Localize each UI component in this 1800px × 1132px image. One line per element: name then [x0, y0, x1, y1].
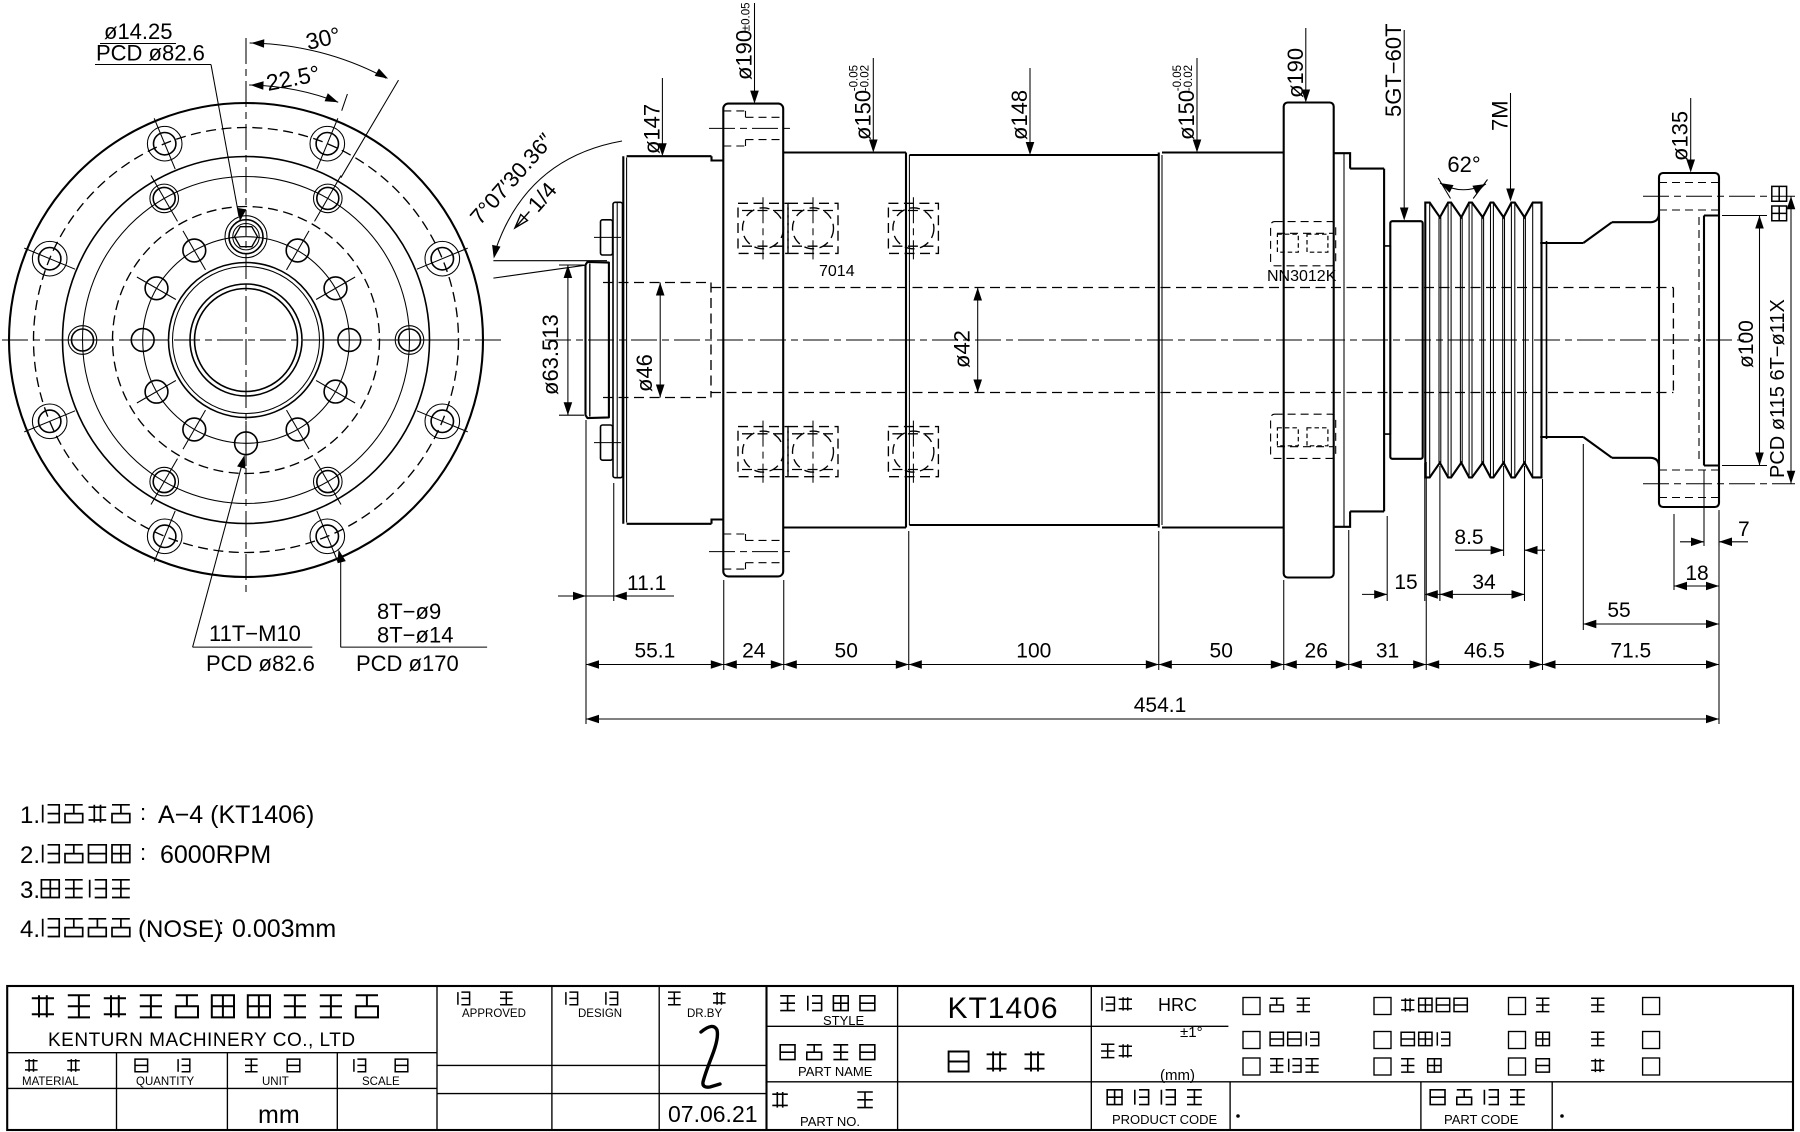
step face ø148/ø150: [1158, 153, 1160, 528]
svg-text:15: 15: [1394, 571, 1417, 594]
svg-text:50: 50: [1210, 640, 1233, 663]
left view: mid hole at 270.0 deg: [56, 326, 109, 355]
front bearing 7014 #2 top: [788, 203, 838, 253]
angular dimension 22.5 deg: [249, 60, 347, 111]
rear flange disc ø190: [1284, 103, 1334, 578]
nose cone internal face line: [589, 264, 591, 417]
dimension 7: [1680, 470, 1750, 546]
overall dimension 454.1: [586, 694, 1719, 723]
step chamfer line second: [1161, 155, 1163, 525]
dimension 55: [1583, 444, 1719, 630]
housing ø150 first section top edge: [783, 151, 906, 153]
bore ø46 hidden lines: [603, 283, 711, 398]
left view: outer hole ø14 counterbore at 112.5 deg: [417, 404, 468, 439]
svg-text:2.: 2.: [20, 842, 40, 869]
dimension label ø190 +-0.05: [732, 2, 759, 103]
rear cap ring D right face: [1383, 169, 1385, 512]
svg-text:62°: 62°: [1447, 152, 1480, 177]
dimension chain 55.1/24/50/100/50/26/31/46.5/71.5: [586, 640, 1719, 669]
header part name: [780, 1045, 875, 1060]
signature scribble: [701, 1026, 720, 1087]
shaft collar thin ring: [1384, 246, 1390, 434]
dimension 62 degrees pulley groove angle: [1438, 152, 1487, 199]
left view: tapped hole M10 at 270 deg: [120, 329, 165, 352]
svg-text:5GT−60T: 5GT−60T: [1381, 23, 1406, 117]
header quantity: [135, 1059, 190, 1072]
svg-text:-0.02: -0.02: [1183, 65, 1195, 91]
svg-text:ø135: ø135: [1668, 111, 1693, 161]
svg-text:DR.BY: DR.BY: [687, 1008, 722, 1020]
svg-text:SCALE: SCALE: [362, 1076, 400, 1088]
header part no: [772, 1092, 788, 1108]
rear cap ring D top edge: [1350, 168, 1384, 170]
left view: special hole ø14.25 hex socket screw at top: [225, 216, 267, 258]
svg-text:7014: 7014: [819, 263, 855, 280]
svg-text:(NOSE): (NOSE): [138, 916, 222, 943]
svg-text:A−4 (KT1406): A−4 (KT1406): [158, 801, 314, 829]
pulley crest edge vertical lines: [1424, 203, 1426, 478]
dimension ø63.513 nose: [538, 265, 584, 415]
flange hidden bolt hole bottom centerline: [709, 551, 795, 553]
svg-text:0.003mm: 0.003mm: [232, 915, 336, 943]
left view: inner hole centers circle PCD ø82.6: [143, 237, 350, 444]
left view: tapped hole M10 at 120 deg: [316, 380, 355, 403]
svg-text:STYLE: STYLE: [823, 1013, 865, 1028]
svg-text:-0.02: -0.02: [859, 65, 871, 91]
svg-text:PCD ø82.6: PCD ø82.6: [206, 651, 315, 676]
housing ø148 top edge: [909, 154, 1158, 156]
relief step before flange bottom: [712, 520, 724, 524]
left view: outer hole ø14 counterbore at 337.5 deg: [147, 118, 182, 169]
left view: outer hole ø14 counterbore at 67.5 deg: [417, 241, 468, 276]
shoulder top edge: [1612, 213, 1659, 222]
svg-text::: :: [140, 840, 146, 865]
svg-text:ø46: ø46: [632, 354, 657, 392]
title block main divider: [765, 986, 767, 1130]
part name value appearance drawing: [949, 1052, 1045, 1072]
shaft cone top: [1583, 222, 1612, 243]
svg-text:26: 26: [1305, 640, 1328, 663]
svg-text:ø150: ø150: [850, 90, 875, 140]
note line 1: spindle spec A-4 (KT1406): [0, 0, 314, 829]
front cap ring: [613, 202, 623, 477]
svg-text:07.06.21: 07.06.21: [668, 1101, 758, 1127]
dimension ø42 bore: [950, 288, 983, 393]
svg-text:50: 50: [835, 640, 858, 663]
right label column rows: [767, 1026, 1794, 1130]
extension lines for dimension chain: [586, 420, 1719, 724]
left view: outer hole ø14 counterbore at 157.5 deg: [310, 511, 345, 562]
rear bearing NN3012K bottom: [1271, 414, 1336, 458]
company box rows: [7, 1053, 437, 1130]
svg-text:PCD ø82.6: PCD ø82.6: [96, 41, 205, 66]
left view: flange centerline horizontal: [2, 339, 506, 341]
left view: tapped hole M10 at 330 deg: [183, 231, 206, 270]
dimension 34: [1440, 466, 1525, 601]
angular dimension 30 deg: [250, 22, 399, 178]
dimension ø100 boss: [1722, 216, 1767, 466]
front cap bolt top centerline: [594, 236, 621, 238]
svg-text:7: 7: [1738, 518, 1750, 541]
housing ø148 bottom edge: [909, 524, 1158, 526]
note line 3: grease lubrication: [20, 877, 130, 904]
svg-text:24: 24: [742, 640, 766, 663]
body ø147 top edge: [627, 155, 712, 157]
left view: outer hole ø14 counterbore at 202.5 deg: [147, 511, 182, 562]
label 8T-ø9 / 8T-ø14 / PCD ø170 with leader to outer hole: [338, 550, 488, 677]
nose taper cone ø63.513: [586, 262, 609, 418]
flange hidden bolt hole bottom: counterbore profile: [723, 534, 783, 569]
output shaft bottom edge: [1540, 436, 1583, 438]
header style: [780, 996, 875, 1011]
svg-text:±0.05: ±0.05: [741, 2, 753, 31]
svg-text:PART NO.: PART NO.: [800, 1114, 860, 1129]
left view: outer hole ø14 counterbore at 247.5 deg: [24, 404, 75, 439]
dimension label ø150 -0.02/-0.05 first: [848, 58, 877, 153]
dimension label ø190 rear: [1283, 28, 1310, 103]
svg-text:ø42: ø42: [950, 330, 975, 368]
front bearing 7014 #2 bottom: [788, 427, 838, 477]
end flange boss hidden line: [1698, 217, 1700, 464]
svg-text:DESIGN: DESIGN: [578, 1008, 622, 1020]
header hardness HRC: [1102, 997, 1132, 1010]
end flange ø135: [1659, 173, 1719, 507]
middle section rows: [437, 1065, 767, 1093]
pulley clamp hub: [1390, 221, 1422, 459]
dimension label 7M: [1488, 93, 1515, 202]
end flange hidden bolt holes top: [1659, 183, 1719, 211]
label 11T-M10 / PCD ø82.6 with leader to bottom hole: [193, 455, 315, 676]
belt pulley 5GT-60T / 7M grooved profile: [1425, 203, 1541, 478]
left view: tapped hole M10 at 150 deg: [286, 410, 309, 449]
svg-text:ø148: ø148: [1007, 90, 1032, 140]
left view: tapped hole M10 at 60 deg: [316, 277, 355, 300]
svg-text:18: 18: [1685, 562, 1708, 585]
left view: tapped hole M10 at 30 deg: [286, 231, 309, 270]
svg-text:8.5: 8.5: [1454, 526, 1483, 549]
left view: bore inner circle: [195, 289, 298, 392]
svg-text:11.1: 11.1: [627, 572, 666, 595]
svg-text:QUANTITY: QUANTITY: [136, 1076, 194, 1088]
housing ø150 second section bottom edge: [1162, 526, 1284, 528]
flange hidden bolt hole top: counterbore profile: [723, 111, 783, 146]
left view: mid hole at 90.0 deg: [383, 326, 436, 355]
taper angle reference line horizontal: [493, 260, 607, 262]
end flange bolt centerline bottom: [1643, 483, 1795, 485]
front bearing 7014 #1 bottom: [738, 427, 788, 477]
dimension 18: [1674, 514, 1719, 590]
svg-text:HRC: HRC: [1158, 995, 1197, 1015]
pulley groove root vertical line pairs: [1438, 217, 1440, 462]
svg-text:1.: 1.: [20, 802, 40, 829]
flange hidden bolt hole top centerline: [709, 127, 795, 129]
dimension label ø147: [639, 78, 666, 156]
body ø147 bottom edge: [627, 523, 712, 525]
front cap bolt bottom: [601, 425, 613, 460]
note line 2: spindle speed 6000RPM: [20, 840, 271, 869]
svg-text:ø63.513: ø63.513: [538, 314, 563, 395]
label ø14.25 / PCD ø82.6 with leader to special hole: [95, 19, 246, 222]
svg-text:71.5: 71.5: [1610, 640, 1651, 663]
svg-text:3.: 3.: [20, 877, 40, 904]
side view: main centerline: [545, 339, 1745, 341]
rear cap ring C inner line: [1343, 153, 1345, 527]
shaft washer face: [1546, 241, 1548, 439]
front cap bolt top: [601, 220, 613, 255]
svg-text:-0.05: -0.05: [1172, 65, 1184, 91]
left view: tapped hole M10 at 210 deg: [183, 410, 206, 449]
left view: nose chamfer circle: [173, 267, 320, 414]
svg-text:100: 100: [1016, 640, 1051, 663]
output shaft top edge: [1540, 242, 1583, 244]
header drawn by: [668, 992, 681, 1005]
part code dot: [1560, 1114, 1564, 1118]
note line 4: runout (NOSE) 0.003mm: [20, 914, 336, 943]
front bearing 7014 #3 bottom: [888, 427, 938, 477]
left view: flange centerline vertical: [245, 38, 247, 592]
taper angle slanted line 7deg: [493, 265, 585, 278]
spindle body left face: [622, 156, 624, 524]
bore ø42 hidden lines: [711, 288, 1673, 393]
rear cap ring C bottom: [1334, 511, 1350, 526]
svg-text:11T−M10: 11T−M10: [209, 621, 301, 646]
svg-text:ø150: ø150: [1174, 90, 1199, 140]
end flange hidden bolt holes bottom: [1659, 470, 1719, 498]
svg-text:KENTURN MACHINERY CO., LTD: KENTURN MACHINERY CO., LTD: [48, 1030, 356, 1051]
step chamfer line: [908, 155, 910, 525]
flange disc ø190: [723, 104, 783, 577]
dimension label ø150 -0.02/-0.05 second: [1172, 58, 1201, 153]
left view: nose disc circle ø63.513: [169, 263, 324, 418]
dimension ø46 bore: [632, 283, 665, 398]
front bearing 7014 #3 top: [888, 203, 938, 253]
svg-text:APPROVED: APPROVED: [462, 1008, 526, 1020]
left view: outer hole ø14 counterbore at 22.5 deg: [310, 118, 345, 169]
svg-text:ø190: ø190: [732, 30, 757, 80]
svg-text:PART NAME: PART NAME: [798, 1064, 873, 1079]
dimension 15: [1362, 463, 1450, 601]
left view: tapped hole M10 at 90 deg: [327, 329, 372, 352]
dimension 11.1: [558, 483, 674, 601]
svg-text:：: ：: [0, 0, 1, 1]
left view: mid hole at 210.0 deg: [150, 459, 179, 505]
svg-text:PART CODE: PART CODE: [1444, 1112, 1519, 1127]
svg-text:46.5: 46.5: [1464, 640, 1505, 663]
left view: outer hole ø14 counterbore at 292.5 deg: [24, 241, 75, 276]
taper annotation text 7deg07m30.36s: [465, 128, 558, 229]
svg-text:6000RPM: 6000RPM: [160, 841, 271, 869]
svg-text:KT1406: KT1406: [947, 992, 1058, 1025]
left view: mid hole at 30.0 deg: [314, 175, 343, 221]
header approved: [458, 992, 470, 1005]
svg-text:ø100: ø100: [1735, 320, 1758, 368]
front cap bolt bottom centerline: [594, 442, 621, 444]
svg-text::: :: [140, 800, 146, 825]
left view: outer flange circle ø190: [9, 103, 483, 577]
header unit: [245, 1059, 300, 1072]
title block outer border: [7, 986, 1793, 1130]
header part code: [1430, 1090, 1525, 1105]
svg-text:-0.05: -0.05: [848, 65, 860, 91]
rear cap ring D bottom edge: [1350, 510, 1384, 512]
svg-text:8T−ø14: 8T−ø14: [377, 623, 453, 648]
left view: mid hole at 150.0 deg: [314, 459, 343, 505]
heat treatment checkboxes: [1243, 998, 1660, 1015]
left view: bolt circle PCD ø170 dashed: [34, 128, 459, 553]
left view: hidden cap circle dashed: [113, 207, 380, 474]
header material: [25, 1059, 80, 1072]
dimension label 5GT-60T: [1381, 23, 1408, 220]
end flange boss ø100 step: [1704, 216, 1719, 466]
left view: body circle ø147: [63, 157, 430, 524]
header design: [566, 992, 578, 1005]
step face ø150/ø148: [905, 153, 907, 528]
svg-text:4.: 4.: [20, 916, 40, 943]
svg-text:PCD ø115 6T−ø11X: PCD ø115 6T−ø11X: [1767, 299, 1789, 478]
svg-text:MATERIAL: MATERIAL: [22, 1076, 79, 1088]
svg-text:454.1: 454.1: [1134, 694, 1187, 717]
left view: tapped hole M10 at 240 deg: [137, 380, 176, 403]
title block vertical dividers: [437, 986, 1091, 1130]
rear bearing NN3012K top: [1271, 222, 1336, 266]
left view: mid hole at 330.0 deg: [150, 175, 179, 221]
company name CJK: [32, 995, 378, 1017]
left view: bore circle ø46: [190, 284, 302, 396]
svg-text:8T−ø9: 8T−ø9: [377, 599, 441, 624]
dimension label ø148: [1007, 68, 1034, 155]
svg-text:(mm): (mm): [1160, 1067, 1195, 1084]
svg-text:±1°: ±1°: [1180, 1024, 1203, 1041]
header product code: [1107, 1090, 1202, 1105]
left view: tapped hole M10 at 180 deg: [235, 421, 258, 466]
housing ø150 second section top edge: [1162, 151, 1284, 153]
front bearing 7014 #1 top: [738, 203, 788, 253]
housing ø150 first section bottom edge: [783, 526, 906, 528]
svg-text:UNIT: UNIT: [262, 1076, 289, 1088]
svg-text:34: 34: [1472, 571, 1496, 594]
relief step before flange top: [712, 156, 724, 160]
taper leader arc from annotation: [496, 141, 623, 250]
dimension label ø135: [1668, 98, 1695, 173]
svg-text:55: 55: [1607, 599, 1630, 622]
left view: tapped hole M10 at 300 deg: [137, 277, 176, 300]
header depth: [1101, 1044, 1132, 1057]
left view: mid hole centers circle: [83, 177, 410, 504]
product code dot: [1236, 1114, 1240, 1118]
svg-text:PCD ø170: PCD ø170: [356, 651, 459, 676]
svg-text:mm: mm: [258, 1101, 300, 1129]
shaft cone bottom: [1583, 437, 1612, 458]
dimension PCD ø115 6T-ø11 through holes: [1767, 196, 1795, 484]
shoulder bottom edge: [1612, 458, 1659, 467]
svg-text:PRODUCT CODE: PRODUCT CODE: [1112, 1112, 1218, 1127]
svg-text:31: 31: [1376, 640, 1399, 663]
spindle body left face chamfer line: [626, 158, 628, 523]
PCD label CJK chars through-hole (rotated): [1772, 186, 1787, 220]
taper annotation 1/4 with taper symbol: [505, 177, 561, 236]
svg-text:NN3012K: NN3012K: [1267, 268, 1337, 285]
svg-text:55.1: 55.1: [634, 640, 675, 663]
dimension 8.5: [1454, 466, 1545, 556]
end flange bolt centerline top: [1643, 195, 1795, 197]
front cap ring inner line: [616, 202, 618, 477]
svg-text:7M: 7M: [1488, 100, 1513, 131]
svg-text::: :: [218, 914, 224, 939]
header scale: [354, 1059, 408, 1072]
rear cap ring C top: [1334, 153, 1350, 168]
